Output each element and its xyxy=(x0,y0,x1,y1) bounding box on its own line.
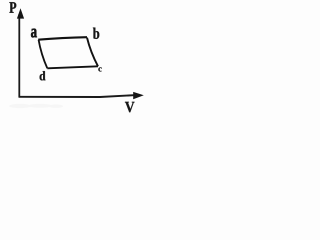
process d-a (left edge) xyxy=(39,40,48,69)
label P xyxy=(9,2,16,12)
process c-d (bottom edge) xyxy=(47,66,98,68)
V axis arrowhead xyxy=(133,92,144,99)
label c xyxy=(98,67,101,71)
process a-b (top edge) xyxy=(38,37,87,40)
label V xyxy=(125,102,135,112)
P axis arrowhead xyxy=(17,8,24,18)
label d xyxy=(40,71,46,80)
process b-c (right edge) xyxy=(87,38,98,67)
V axis (horizontal) xyxy=(19,95,137,97)
label a xyxy=(31,29,37,38)
faint bleed-through smudge xyxy=(9,104,63,108)
P axis (vertical) xyxy=(18,14,20,97)
label b xyxy=(93,28,99,39)
